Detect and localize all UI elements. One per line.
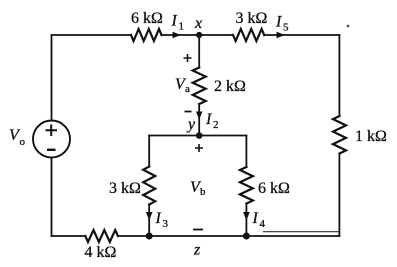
wire right lower xyxy=(338,154,340,237)
resistor R 2k middle xyxy=(193,68,206,105)
resistor R 6k top xyxy=(131,29,162,41)
arrowhead current I2 xyxy=(196,112,203,120)
svg-text:4: 4 xyxy=(260,218,266,230)
minus sign inside source xyxy=(47,149,56,151)
arrowhead current I1 xyxy=(173,32,182,39)
wire right branch lower xyxy=(245,204,247,237)
wire top middle segment xyxy=(162,34,234,36)
wire right branch upper xyxy=(245,136,247,168)
speck dot top right xyxy=(347,25,350,28)
arrowhead current I5 xyxy=(277,32,286,39)
arrowhead current I3 xyxy=(146,212,153,221)
node y junction dot xyxy=(196,132,203,139)
plus sign Vb xyxy=(195,144,203,152)
wire top-left segment xyxy=(52,34,132,36)
wire Vb box top xyxy=(149,135,246,137)
svg-text:y: y xyxy=(186,116,196,133)
wire bottom right segment xyxy=(118,235,340,237)
svg-text:3 kΩ: 3 kΩ xyxy=(109,180,141,197)
svg-text:I: I xyxy=(155,210,162,227)
svg-text:z: z xyxy=(193,242,201,259)
wire bottom left segment xyxy=(52,235,86,237)
svg-text:x: x xyxy=(194,15,202,32)
plus sign Va xyxy=(184,54,192,62)
svg-text:I: I xyxy=(205,111,212,128)
resistor R 1k right xyxy=(333,116,346,154)
svg-text:I: I xyxy=(252,210,259,227)
svg-text:a: a xyxy=(185,83,190,95)
minus sign Vb xyxy=(193,229,203,231)
resistor R 3k top xyxy=(233,29,264,41)
svg-text:2 kΩ: 2 kΩ xyxy=(214,78,246,95)
resistor R 6k right branch xyxy=(240,167,253,204)
svg-text:1: 1 xyxy=(179,21,185,33)
arrowhead current I4 xyxy=(243,212,250,221)
resistor R 4k bottom xyxy=(85,230,118,242)
wire 2k to node y xyxy=(198,104,200,136)
minus sign Va xyxy=(185,111,192,113)
svg-text:6 kΩ: 6 kΩ xyxy=(131,10,163,27)
bottom-right junction dot (I4 node) xyxy=(243,233,250,240)
svg-text:1 kΩ: 1 kΩ xyxy=(355,128,387,145)
wire right upper xyxy=(338,35,340,116)
svg-text:o: o xyxy=(20,136,26,148)
svg-text:5: 5 xyxy=(283,22,289,34)
voltage source Vo circle xyxy=(33,121,70,158)
wire middle vertical upper (node x to 2k) xyxy=(198,35,200,68)
wire left upper xyxy=(51,35,53,121)
svg-text:4 kΩ: 4 kΩ xyxy=(85,244,117,261)
svg-text:3: 3 xyxy=(163,218,169,230)
plus sign inside source xyxy=(46,125,58,137)
resistor R 3k left branch xyxy=(143,167,155,205)
svg-text:3 kΩ: 3 kΩ xyxy=(236,10,268,27)
node x junction dot xyxy=(196,32,202,38)
wire ghost line artifact bottom right xyxy=(263,231,339,233)
svg-text:I: I xyxy=(275,14,282,31)
wire left branch lower xyxy=(148,205,150,237)
svg-text:2: 2 xyxy=(213,119,219,131)
svg-text:b: b xyxy=(200,186,206,198)
wire left lower xyxy=(51,158,53,237)
svg-text:I: I xyxy=(171,13,178,30)
wire left branch upper xyxy=(148,136,150,167)
bottom-left junction dot (I3 node) xyxy=(146,233,153,240)
svg-text:6 kΩ: 6 kΩ xyxy=(258,180,290,197)
wire top-right segment xyxy=(264,34,339,36)
